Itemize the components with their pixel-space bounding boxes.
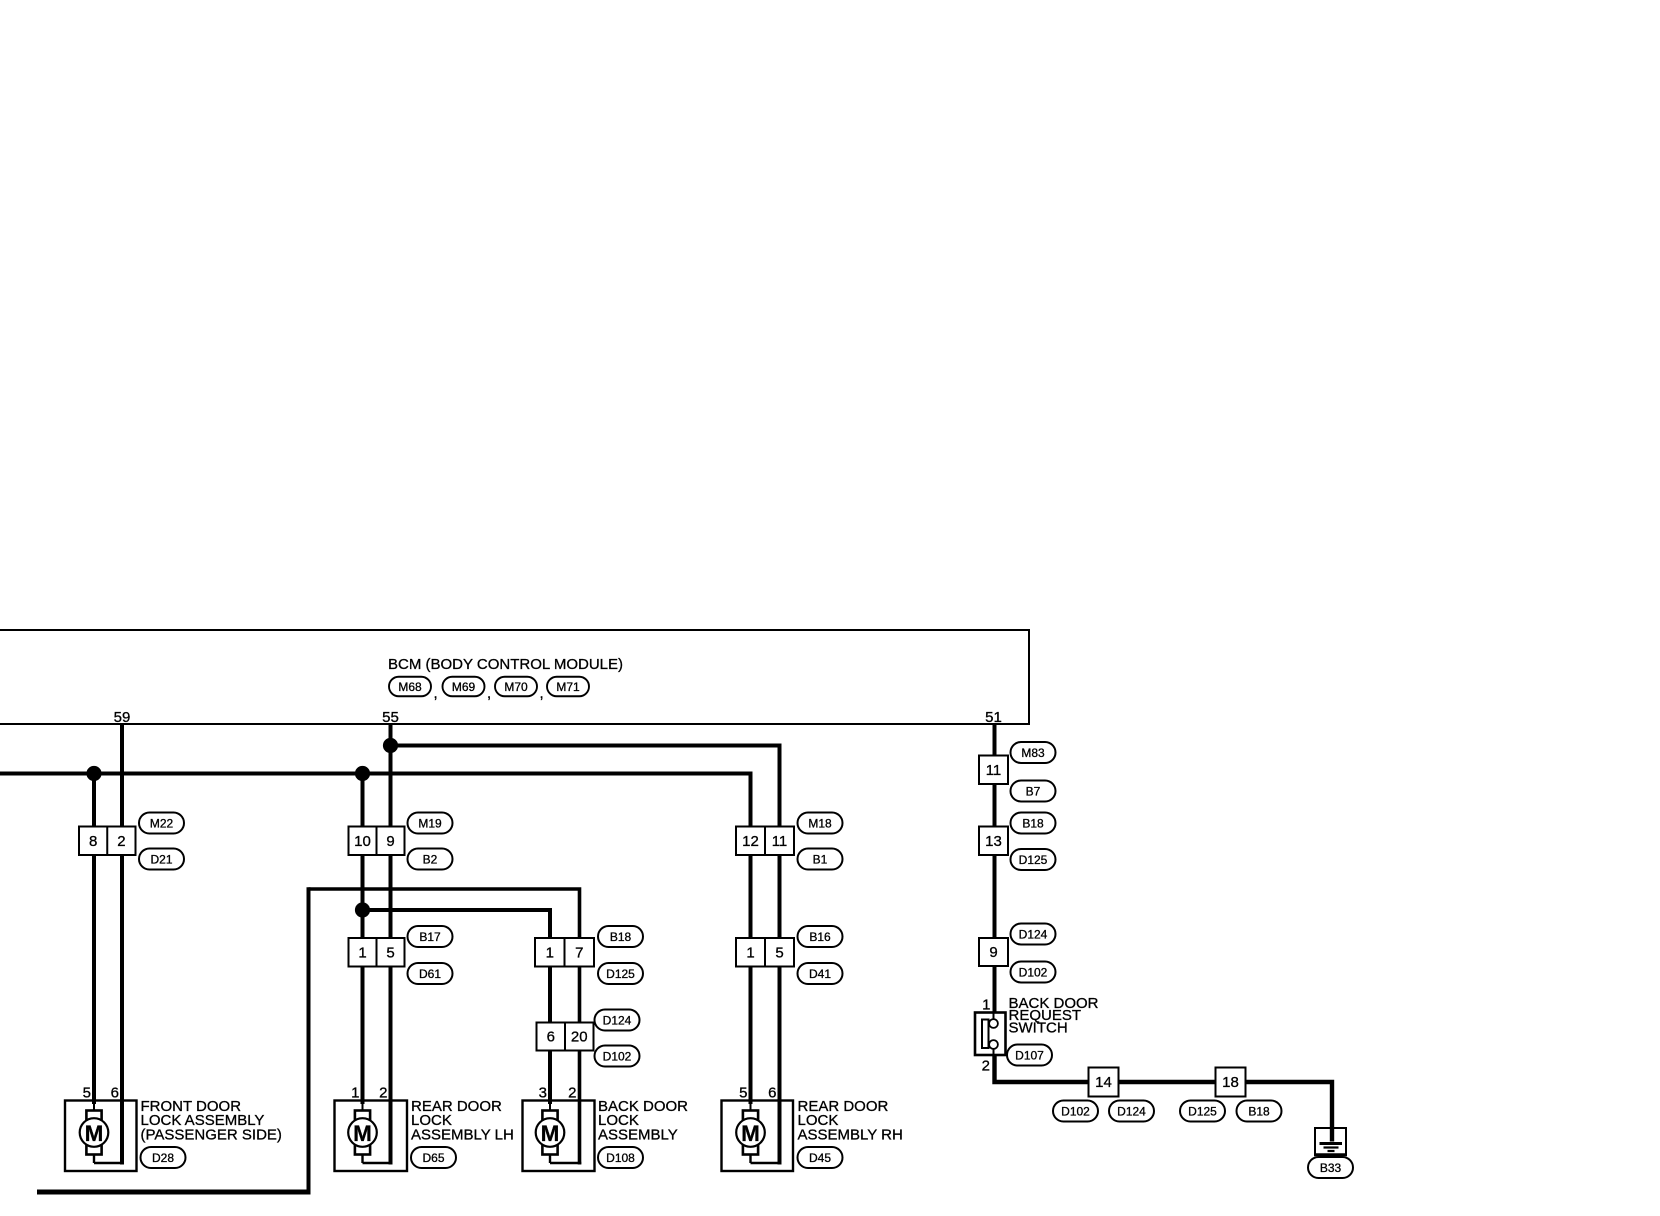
svg-text:3: 3 bbox=[539, 1085, 547, 1102]
svg-text:D124: D124 bbox=[1019, 928, 1048, 942]
connector D124 bbox=[1011, 924, 1056, 945]
svg-text:M22: M22 bbox=[150, 817, 174, 831]
svg-text:D28: D28 bbox=[152, 1151, 174, 1165]
svg-text:B33: B33 bbox=[1320, 1161, 1342, 1175]
svg-text:M70: M70 bbox=[504, 680, 528, 694]
svg-text:D45: D45 bbox=[809, 1151, 831, 1165]
svg-text:M: M bbox=[85, 1121, 104, 1146]
svg-text:6: 6 bbox=[768, 1085, 776, 1102]
svg-text:M19: M19 bbox=[418, 817, 442, 831]
motor M (D108) bbox=[542, 1111, 557, 1155]
connector D125 bbox=[1011, 849, 1056, 870]
BCM (Body Control Module) box bbox=[0, 630, 1029, 724]
svg-text:2: 2 bbox=[568, 1085, 576, 1102]
svg-text:D102: D102 bbox=[603, 1050, 632, 1064]
svg-text:6: 6 bbox=[111, 1085, 119, 1102]
svg-text:ASSEMBLY LH: ASSEMBLY LH bbox=[411, 1126, 514, 1143]
motor lead bottom bbox=[361, 1154, 363, 1164]
wire: switch pin 2 to ground B33 bbox=[995, 1055, 1333, 1142]
ground B33 bbox=[1315, 1128, 1346, 1155]
connector D124 bbox=[595, 1010, 640, 1031]
motor return wire bbox=[751, 1162, 782, 1164]
connector pin box 13 (B18/D125) bbox=[979, 827, 1008, 856]
motor lead bottom bbox=[749, 1154, 751, 1164]
svg-text:5: 5 bbox=[83, 1085, 91, 1102]
wire: BCM pin 55 down to rear door LH pin 2 bbox=[389, 724, 393, 1165]
connector M83 bbox=[1011, 742, 1056, 763]
svg-text:,: , bbox=[540, 685, 544, 702]
svg-text:8: 8 bbox=[89, 833, 97, 850]
svg-text:59: 59 bbox=[114, 709, 131, 726]
svg-text:11: 11 bbox=[772, 833, 788, 850]
connector pin box 1|7 (B18/D125) bbox=[535, 938, 594, 967]
svg-text:B2: B2 bbox=[423, 853, 438, 867]
svg-text:B7: B7 bbox=[1026, 785, 1041, 799]
connector M68 bbox=[389, 677, 431, 697]
svg-text:,: , bbox=[434, 685, 438, 702]
svg-text:51: 51 bbox=[985, 709, 1002, 726]
connector pin box 1|5 (B16/D41) bbox=[736, 938, 794, 967]
svg-text:1: 1 bbox=[358, 944, 366, 961]
svg-text:1: 1 bbox=[351, 1085, 359, 1102]
connector D124 bbox=[1109, 1101, 1154, 1122]
motor M (D28) bbox=[86, 1111, 101, 1155]
connector B18 bbox=[1011, 813, 1056, 834]
svg-text:D125: D125 bbox=[1188, 1105, 1217, 1119]
svg-text:1: 1 bbox=[546, 944, 554, 961]
connector D107 bbox=[1007, 1045, 1052, 1066]
motor return wire bbox=[550, 1162, 581, 1164]
connector D28 bbox=[141, 1147, 186, 1168]
svg-text:5: 5 bbox=[386, 944, 394, 961]
connector D41 bbox=[798, 963, 843, 984]
junction at bus W2 / rear door LH drop bbox=[355, 766, 370, 781]
svg-text:9: 9 bbox=[386, 833, 394, 850]
svg-text:D124: D124 bbox=[1117, 1105, 1146, 1119]
svg-text:M18: M18 bbox=[808, 817, 832, 831]
connector B17 bbox=[408, 926, 453, 947]
svg-text:M83: M83 bbox=[1021, 746, 1045, 760]
svg-text:D102: D102 bbox=[1019, 966, 1048, 980]
connector D102 bbox=[595, 1046, 640, 1067]
svg-text:B16: B16 bbox=[809, 930, 831, 944]
connector M19 bbox=[408, 813, 453, 834]
connector B18 bbox=[598, 926, 643, 947]
svg-text:D108: D108 bbox=[606, 1151, 635, 1165]
rear door lock assembly box bbox=[335, 1101, 408, 1172]
switch plunger bbox=[982, 1020, 989, 1049]
connector B33 bbox=[1308, 1157, 1353, 1178]
connector M71 bbox=[547, 677, 589, 697]
wire: branch W3 to back door lock pin 2 bbox=[309, 889, 580, 1165]
svg-text:D125: D125 bbox=[1019, 853, 1048, 867]
svg-text:,: , bbox=[487, 685, 491, 702]
switch contact leads bbox=[993, 1013, 995, 1021]
wire: front door lock pin 5 drop bbox=[92, 772, 96, 1105]
svg-text:12: 12 bbox=[742, 833, 759, 850]
switch contact 2 bbox=[989, 1040, 998, 1049]
svg-text:11: 11 bbox=[986, 762, 1002, 779]
svg-text:D21: D21 bbox=[150, 853, 172, 867]
svg-text:5: 5 bbox=[775, 944, 783, 961]
connector pin box 6|20 (D124/D102) bbox=[537, 1023, 594, 1051]
svg-text:14: 14 bbox=[1095, 1074, 1112, 1091]
wire: BCM pin 55 to rear door RH pin 6 (node W1) bbox=[391, 746, 780, 1165]
connector D125 bbox=[598, 963, 643, 984]
connector pin box 8|2 (M22/D21) bbox=[79, 827, 136, 856]
motor return wire bbox=[94, 1162, 124, 1164]
svg-text:7: 7 bbox=[575, 944, 583, 961]
connector pin box 14 (D102/D124) bbox=[1089, 1068, 1119, 1097]
rear door lock assembly box bbox=[722, 1101, 794, 1172]
svg-text:2: 2 bbox=[982, 1058, 990, 1075]
svg-text:20: 20 bbox=[571, 1029, 588, 1046]
motor M (D65) bbox=[355, 1111, 370, 1155]
wire: branch W4 to back door lock pin 3 bbox=[363, 910, 551, 1104]
connector D102 bbox=[1053, 1101, 1098, 1122]
svg-text:B17: B17 bbox=[419, 930, 441, 944]
wire: BCM pin 59 to front door lock pin 6 bbox=[120, 724, 124, 1165]
motor lead top bbox=[93, 1103, 95, 1112]
connector M69 bbox=[443, 677, 485, 697]
connector D21 bbox=[139, 849, 184, 870]
svg-text:D65: D65 bbox=[422, 1151, 444, 1165]
junction at BCM pin 55 / node W1 bbox=[383, 738, 398, 753]
connector pin box 12|11 (M18/B1) bbox=[736, 827, 794, 856]
svg-text:(PASSENGER SIDE): (PASSENGER SIDE) bbox=[141, 1126, 282, 1143]
wire: bottom-left horizontal stub bbox=[37, 1190, 311, 1195]
motor M (D45) bbox=[743, 1111, 758, 1155]
svg-text:10: 10 bbox=[354, 833, 371, 850]
connector M22 bbox=[139, 813, 184, 834]
svg-text:B18: B18 bbox=[1248, 1105, 1270, 1119]
connector M70 bbox=[495, 677, 537, 697]
connector pin box 9 (D124/D102) bbox=[979, 938, 1008, 966]
svg-text:D61: D61 bbox=[419, 967, 441, 981]
svg-text:13: 13 bbox=[985, 833, 1002, 850]
wire: rear door LH pin 1 drop bbox=[361, 772, 365, 1105]
connector pin box 18 (D125/B18) bbox=[1216, 1068, 1246, 1097]
connector pin box 10|9 (M19/B2) bbox=[349, 827, 405, 856]
connector D125 bbox=[1180, 1101, 1225, 1122]
motor lead top bbox=[750, 1103, 752, 1112]
svg-text:D125: D125 bbox=[606, 967, 635, 981]
connector D45 bbox=[798, 1147, 843, 1168]
svg-text:D41: D41 bbox=[809, 967, 831, 981]
connector D108 bbox=[598, 1147, 643, 1168]
motor lead bottom bbox=[549, 1154, 551, 1164]
svg-text:2: 2 bbox=[379, 1085, 387, 1102]
svg-text:M71: M71 bbox=[556, 680, 580, 694]
connector B2 bbox=[408, 849, 453, 870]
motor return wire bbox=[363, 1162, 393, 1164]
connector D65 bbox=[411, 1147, 456, 1168]
connector D61 bbox=[408, 963, 453, 984]
svg-text:D102: D102 bbox=[1061, 1105, 1090, 1119]
svg-text:6: 6 bbox=[547, 1029, 555, 1046]
svg-text:M: M bbox=[741, 1121, 760, 1146]
svg-text:M: M bbox=[541, 1121, 560, 1146]
svg-text:55: 55 bbox=[382, 709, 399, 726]
connector B7 bbox=[1011, 781, 1056, 802]
svg-text:M: M bbox=[353, 1121, 372, 1146]
connector B18 bbox=[1237, 1101, 1282, 1122]
svg-text:D107: D107 bbox=[1015, 1049, 1044, 1063]
svg-text:M68: M68 bbox=[398, 680, 422, 694]
svg-text:B18: B18 bbox=[1022, 817, 1044, 831]
back door request switch box bbox=[975, 1013, 1006, 1056]
wire: horizontal bus from left edge to rear door RH pin 5 (node W2) bbox=[0, 774, 751, 1105]
back door lock assembly box bbox=[523, 1101, 595, 1172]
svg-text:1: 1 bbox=[746, 944, 754, 961]
connector M18 bbox=[798, 813, 843, 834]
svg-text:B18: B18 bbox=[610, 930, 632, 944]
connector B16 bbox=[798, 926, 843, 947]
svg-text:2: 2 bbox=[117, 833, 125, 850]
svg-text:SWITCH: SWITCH bbox=[1009, 1019, 1068, 1036]
connector pin box 11 (M83/B7) bbox=[979, 756, 1008, 785]
wire: bottom-left riser bbox=[307, 887, 311, 1194]
svg-text:ASSEMBLY RH: ASSEMBLY RH bbox=[798, 1126, 903, 1143]
motor lead top bbox=[549, 1103, 551, 1112]
connector pin box 1|5 (B17/D61) bbox=[349, 938, 405, 967]
connector D102 bbox=[1011, 962, 1056, 983]
svg-text:D124: D124 bbox=[603, 1014, 632, 1028]
junction at bus W2 / front door drop bbox=[86, 766, 101, 781]
switch contact 1 bbox=[989, 1019, 998, 1028]
svg-text:9: 9 bbox=[989, 944, 997, 961]
svg-text:BCM (BODY CONTROL MODULE): BCM (BODY CONTROL MODULE) bbox=[388, 656, 623, 673]
connector B1 bbox=[798, 849, 843, 870]
wire: BCM pin 51 to back door request switch pin 1 bbox=[993, 724, 997, 1013]
svg-text:1: 1 bbox=[982, 997, 990, 1014]
svg-text:18: 18 bbox=[1222, 1074, 1239, 1091]
front door lock assembly box bbox=[65, 1101, 137, 1172]
junction on rear door LH drop at W4 bbox=[355, 902, 370, 917]
svg-text:5: 5 bbox=[739, 1085, 747, 1102]
motor lead bottom bbox=[93, 1154, 95, 1164]
svg-text:ASSEMBLY: ASSEMBLY bbox=[598, 1126, 678, 1143]
svg-text:M69: M69 bbox=[452, 680, 476, 694]
motor lead top bbox=[362, 1103, 364, 1112]
svg-text:B1: B1 bbox=[813, 853, 828, 867]
